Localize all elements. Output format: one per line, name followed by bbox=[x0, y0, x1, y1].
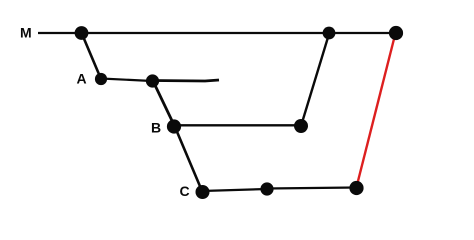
node A dot bbox=[95, 73, 107, 85]
svg-text:C: C bbox=[180, 183, 190, 199]
node: B-row right dot bbox=[294, 119, 308, 133]
wire: diagonal B node down to C node bbox=[175, 127, 202, 191]
wire: A row line from A node to second A-row node bbox=[101, 79, 152, 82]
node: C-row middle dot bbox=[260, 182, 273, 195]
svg-text:A: A bbox=[77, 71, 87, 87]
wire: diagonal second A-row node down to B node bbox=[153, 81, 175, 127]
node: C-row right dot bbox=[349, 181, 363, 195]
node M junction dot bbox=[75, 26, 89, 40]
node B dot bbox=[167, 119, 181, 133]
wire: top horizontal line from M to right node bbox=[38, 32, 396, 34]
wire: diagonal M node to A node bbox=[82, 34, 101, 79]
node: A-row second dot bbox=[146, 74, 159, 87]
svg-text:B: B bbox=[151, 120, 161, 136]
node C dot bbox=[196, 185, 210, 199]
wire: C row line from middle node to right node bbox=[267, 188, 356, 189]
wire: C row line from C node to middle node bbox=[202, 189, 267, 191]
node: top right dot bbox=[389, 26, 403, 40]
node: top middle dot bbox=[323, 27, 336, 40]
wire: thick stub line right of second A-row node bbox=[152, 80, 219, 81]
svg-text:M: M bbox=[20, 25, 32, 41]
wire: red diagonal from top-right node down to C-row right node bbox=[357, 35, 395, 185]
wire: B row horizontal line bbox=[174, 124, 301, 126]
wire: diagonal B-row right node up to top line node bbox=[301, 34, 329, 126]
